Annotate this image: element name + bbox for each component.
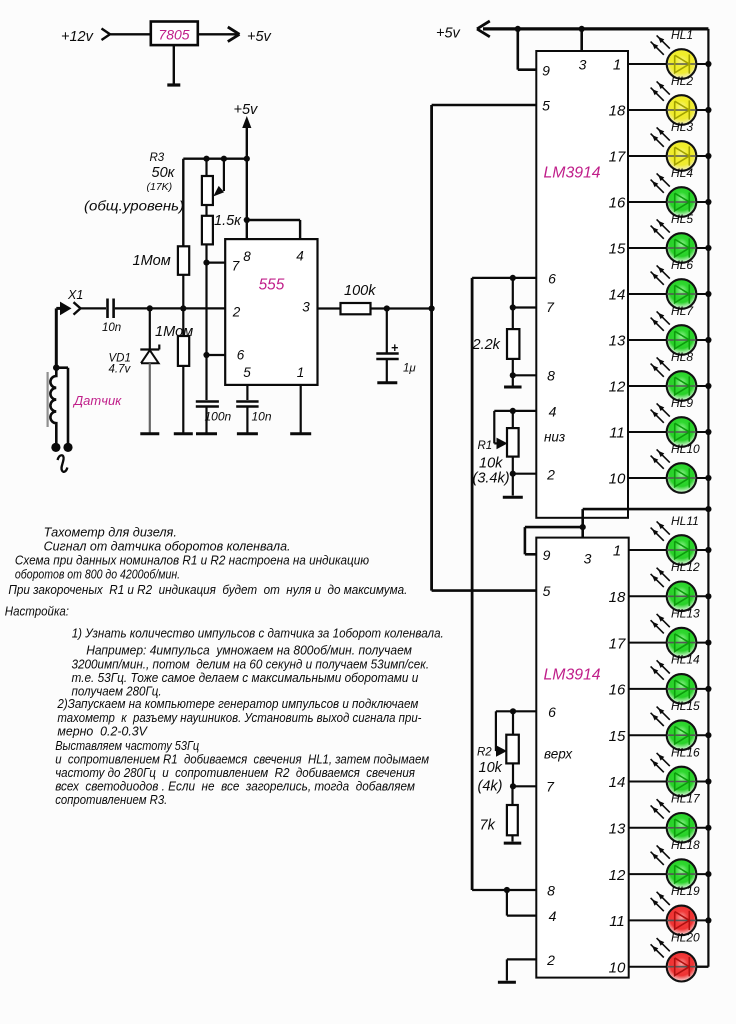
svg-text:HL19: HL19 [671,884,700,898]
svg-text:HL11: HL11 [671,514,699,528]
wire pin5 gnd [246,385,248,400]
node [510,708,516,714]
LED HL3 [651,120,697,171]
wire pin17 LED row [629,642,709,644]
LED HL7 [651,304,697,355]
wire pin15 LED row [629,734,709,736]
svg-text:8: 8 [547,883,555,899]
wire [81,307,107,309]
svg-text:низ: низ [544,430,565,445]
wire [371,307,432,309]
ground [167,45,180,85]
svg-text:2: 2 [546,952,555,968]
svg-text:7: 7 [546,779,555,795]
svg-text:13: 13 [609,821,626,838]
node [147,305,153,311]
svg-text:+12v: +12v [61,29,94,45]
LED HL4 [651,166,697,217]
svg-text:6: 6 [548,271,556,287]
label 3.4k [473,471,510,487]
svg-text:50к: 50к [152,165,176,181]
svg-text:(4k): (4k) [478,779,503,795]
wire [581,509,584,537]
wire +5v chip2 [583,508,709,511]
wire [115,307,225,309]
svg-text:16: 16 [609,682,626,699]
resistor 100k [341,303,371,314]
LED HL19 [651,884,700,935]
ground [237,432,258,435]
LED HL18 [651,838,700,889]
resistor 1M upper [178,246,189,274]
+5v rail label (555) [234,102,259,118]
label R2 [477,747,492,759]
node [221,156,227,162]
svg-text:верх: верх [544,747,573,762]
power arrow +5v [242,116,251,239]
wire pin18 LED row [628,109,708,111]
svg-text:2.2k: 2.2k [472,337,501,353]
svg-text:+5v: +5v [234,102,259,118]
svg-text:Настройка:: Настройка: [5,604,69,619]
svg-text:HL15: HL15 [671,699,700,713]
svg-text:12: 12 [609,379,626,396]
ic U2 LM3914 [536,538,628,978]
svg-text:HL9: HL9 [671,396,693,410]
voltage regulator 7805 [151,22,198,46]
svg-text:13: 13 [609,333,626,350]
wire pin8 chip2 [472,889,536,891]
sensor terminal [51,443,60,452]
wire wiper bypass R1 [494,411,513,444]
LED HL20 [651,931,700,982]
wire pin7 stub [207,262,226,264]
svg-text:HL5: HL5 [671,212,693,226]
svg-text:10k: 10k [479,760,503,776]
svg-text:2: 2 [546,467,555,483]
node [705,686,711,692]
svg-text:1: 1 [297,365,305,380]
svg-text:сопротивлением R3.: сопротивлением R3. [55,792,167,807]
ground [196,432,217,435]
wire pin15 LED row [628,247,708,249]
LED HL17 [651,792,701,843]
label R3 [150,152,165,164]
svg-text:R2: R2 [477,747,492,759]
svg-text:5: 5 [243,365,251,380]
svg-text:HL10: HL10 [671,442,700,456]
potentiometer R1 [507,411,519,457]
LED HL8 [651,350,697,401]
svg-text:(17K): (17K) [147,181,173,193]
wire [182,366,184,433]
sensor terminal [63,443,72,452]
svg-text:1Мом: 1Мом [133,253,171,269]
svg-text:3: 3 [579,57,587,73]
wire pin12 LED row [628,385,708,387]
ground [377,381,397,384]
ic U1 LM3914 [536,51,628,518]
wire pin16 LED row [628,201,708,203]
resistor 1M lower [178,336,189,366]
node [510,408,516,414]
node [705,199,711,205]
ground [503,496,523,499]
svg-text:18: 18 [609,103,626,120]
wire pin16 LED row [629,688,709,690]
svg-text:7: 7 [546,299,555,315]
wire [512,457,514,474]
wire pin18 LED row [629,595,709,597]
wire [511,786,513,805]
wire [512,278,514,329]
label 100n [205,410,232,424]
node [510,304,516,310]
svg-text:10: 10 [609,959,626,976]
wire pin9 chip1 [518,29,537,70]
wire pin1 gnd [300,385,302,433]
node [579,26,585,32]
svg-text:15: 15 [609,241,626,258]
svg-text:14: 14 [609,774,626,791]
wiper arrow R1 [497,438,508,450]
connector X1 chevron [74,302,81,314]
node [705,871,711,877]
bus wire right [696,29,708,967]
wire pin4 chip2 [507,890,536,916]
svg-text:10: 10 [609,471,626,488]
wire [205,355,207,400]
wire pin3 chip1 [580,29,583,51]
svg-text:10k: 10k [479,456,503,472]
wire pin13 LED row [629,827,709,829]
svg-text:HL7: HL7 [671,304,694,318]
svg-text:10n: 10n [102,322,121,334]
wire pin13 LED row [628,339,708,341]
wire pin9 chip2 [525,527,583,554]
ground [504,842,522,845]
svg-text:15: 15 [609,728,626,745]
node [705,917,711,923]
svg-text:HL13: HL13 [671,606,700,620]
svg-text:4: 4 [296,249,304,264]
capacitor 10n input [108,299,114,319]
svg-text:HL4: HL4 [671,166,693,180]
svg-text:HL8: HL8 [671,350,693,364]
wire [182,159,184,247]
svg-text:4: 4 [549,908,557,924]
potentiometer R2 [506,711,519,763]
node [705,547,711,553]
wire pin6 chip1 [472,277,536,279]
wire [512,474,514,496]
LED HL10 [651,442,700,493]
node [705,778,711,784]
resistor 7k [507,805,518,835]
node [705,475,711,481]
node [705,107,711,113]
node [203,156,209,162]
connector arrow +12v [102,29,111,41]
capacitor 100n [196,402,219,434]
bus wire [471,278,474,890]
label Datchik [72,393,122,408]
svg-text:+: + [391,341,398,355]
svg-text:(3.4k): (3.4k) [473,471,510,487]
node [705,429,711,435]
label VD1 [109,353,132,376]
wire pin8 stub chip1 [513,374,537,376]
svg-text:8: 8 [547,368,555,384]
label 10n bypass [252,410,272,424]
svg-text:HL17: HL17 [671,792,701,806]
label 4k [478,779,503,795]
LED HL14 [651,653,700,704]
svg-text:При закороченых R1 и R2 инди: При закороченых R1 и R2 индикация будет … [8,582,407,597]
LED HL13 [651,606,700,657]
svg-text:HL14: HL14 [671,653,700,667]
node [510,275,516,281]
LED HL16 [651,745,700,796]
wire [205,244,207,262]
svg-text:2)Запускаем на компьютере гене: 2)Запускаем на компьютере генератор импу… [57,696,419,711]
wire pin10 LED row [629,966,709,968]
node [705,337,711,343]
wire [110,33,151,35]
svg-text:17: 17 [609,149,626,166]
label 1u [403,363,416,375]
svg-text:Схема при данных номиналов R1: Схема при данных номиналов R1 и R2 настр… [15,553,369,568]
node [705,506,711,512]
label 2.2k [472,337,501,353]
node [580,524,586,530]
svg-text:HL2: HL2 [671,74,693,88]
+5v output label [247,29,272,45]
wire [512,763,514,786]
wire pin14 LED row [629,781,709,783]
node [504,887,510,893]
svg-text:12: 12 [609,867,626,884]
svg-text:10n: 10n [252,410,272,424]
node [705,383,711,389]
wire [205,159,207,176]
LED HL6 [651,258,697,309]
wire pin7 stub chip1 [513,306,537,308]
svg-text:555: 555 [259,277,285,294]
wire [56,368,68,443]
label 100k [344,283,376,299]
svg-text:100n: 100n [205,410,232,424]
svg-text:1: 1 [613,57,621,74]
wire +5v rail top [483,27,708,30]
label 1Mom lower [155,324,193,340]
bus wire [430,105,433,591]
ic 555 [225,239,317,385]
wire [318,307,341,309]
svg-text:11: 11 [609,425,625,442]
LED HL11 [651,514,699,565]
+12v input label [61,29,94,45]
svg-text:HL12: HL12 [671,560,700,574]
label 1Mom upper [133,253,171,269]
node [203,260,209,266]
svg-text:LM3914: LM3914 [544,165,601,182]
wire pin11 LED row [629,919,709,921]
svg-text:Сигнал от датчика оборотов кол: Сигнал от датчика оборотов коленвала. [44,539,291,554]
node [705,825,711,831]
node [705,61,711,67]
node [510,783,516,789]
svg-text:7805: 7805 [158,27,189,43]
label 7k [480,818,496,834]
wiper arrow R2 [496,745,507,757]
wire pin12 LED row [629,873,709,875]
node [53,364,60,371]
node [510,372,516,378]
potentiometer R3 [202,159,224,205]
node [244,156,250,162]
label (17K) [147,181,173,193]
node [384,305,390,311]
wire [511,835,513,841]
svg-text:4: 4 [549,404,557,420]
svg-text:Тахометр для дизеля.: Тахометр для дизеля. [44,525,177,540]
label R1 [478,440,493,452]
wire pin4 stub chip1 [513,410,537,412]
svg-text:HL20: HL20 [671,931,700,945]
label obshch.uroven [84,199,184,214]
wire [198,33,228,35]
svg-text:9: 9 [543,547,551,563]
svg-text:100k: 100k [344,283,376,299]
svg-text:18: 18 [609,589,626,606]
svg-text:HL6: HL6 [671,258,693,272]
LED HL12 [651,560,700,611]
wire wiper bypass R2 [496,711,500,751]
LED HL1 [651,28,697,79]
description text block [5,525,444,808]
wire pin5 chip1 [432,104,537,107]
svg-text:HL1: HL1 [671,28,693,42]
node [705,593,711,599]
svg-text:HL18: HL18 [671,838,700,852]
svg-text:11: 11 [609,913,625,930]
ground [140,432,159,435]
svg-text:LM3914: LM3914 [544,667,601,684]
ac source squiggle [58,455,68,472]
svg-text:7k: 7k [480,818,496,834]
svg-text:4.7v: 4.7v [109,364,132,376]
node [515,26,521,32]
sensor coil [48,368,57,443]
wire [182,308,184,336]
svg-text:мерно 0.2-0.3V: мерно 0.2-0.3V [57,724,148,739]
wire pin14 LED row [628,293,708,295]
svg-text:17: 17 [609,635,626,652]
wire pin6 chip2 [496,710,536,712]
LED HL2 [651,74,697,125]
svg-text:Например: 4импульса умножаем: Например: 4импульса умножаем на 800об/ми… [86,643,412,658]
wire pin1 LED row [629,549,709,551]
capacitor 10n bypass [236,402,258,434]
label 1.5k [214,213,242,229]
svg-text:3: 3 [302,300,310,315]
svg-text:9: 9 [542,63,550,79]
+5v rail label (LEDs) [436,26,461,42]
ground [498,981,516,984]
arrow to +5v [228,27,240,42]
node [705,732,711,738]
svg-text:1) Узнать количество импульсов: 1) Узнать количество импульсов с датчика… [72,626,444,641]
svg-text:оборотов от 800 до 4200об/мин.: оборотов от 800 до 4200об/мин. [15,567,180,582]
wire pin2 chip2 [507,959,536,980]
wire [183,157,247,159]
svg-text:5: 5 [542,98,550,114]
svg-text:6: 6 [237,348,245,363]
wire [205,205,207,216]
svg-text:2: 2 [232,305,241,320]
node [705,153,711,159]
svg-text:6: 6 [548,704,556,720]
node [510,471,516,477]
wire [205,263,207,355]
svg-text:+5v: +5v [247,29,272,45]
svg-text:HL3: HL3 [671,120,693,134]
wire pin1 LED row [628,63,708,65]
wire pin10 LED row [628,477,708,479]
wire pin2 stub chip1 [513,473,537,475]
svg-text:Датчик: Датчик [72,393,122,408]
label X1 [67,288,83,302]
svg-text:R1: R1 [478,440,493,452]
zener VD1 [140,308,159,433]
resistor 1.5k [202,216,213,245]
wire branch pin4 [247,220,300,239]
node [244,217,250,223]
svg-text:7: 7 [232,259,240,274]
wire [512,375,514,385]
svg-text:(общ.уровень): (общ.уровень) [84,199,184,214]
svg-text:R3: R3 [150,152,165,164]
node [203,352,209,358]
svg-text:14: 14 [609,287,626,304]
svg-text:HL16: HL16 [671,745,700,759]
node [705,640,711,646]
svg-text:8: 8 [243,249,251,264]
node [429,305,435,311]
wire pin11 LED row [628,431,708,433]
svg-text:X1: X1 [67,288,83,302]
svg-text:16: 16 [609,195,626,212]
resistor 2.2k [507,329,519,359]
wire [182,275,184,309]
LED HL5 [651,212,697,263]
capacitor 1u [376,309,398,382]
wire pin5 chip2 [432,589,537,592]
label 10n input [102,322,121,334]
wire [55,308,58,367]
svg-text:1: 1 [613,543,621,560]
LED HL15 [651,699,700,750]
svg-text:5: 5 [543,583,551,599]
node [705,245,711,251]
power arrow +5v left [477,21,490,37]
label 10k R2 [479,760,503,776]
wire pin6 stub [207,354,226,356]
node [180,305,186,311]
svg-text:1μ: 1μ [403,363,416,375]
ground [504,386,522,389]
